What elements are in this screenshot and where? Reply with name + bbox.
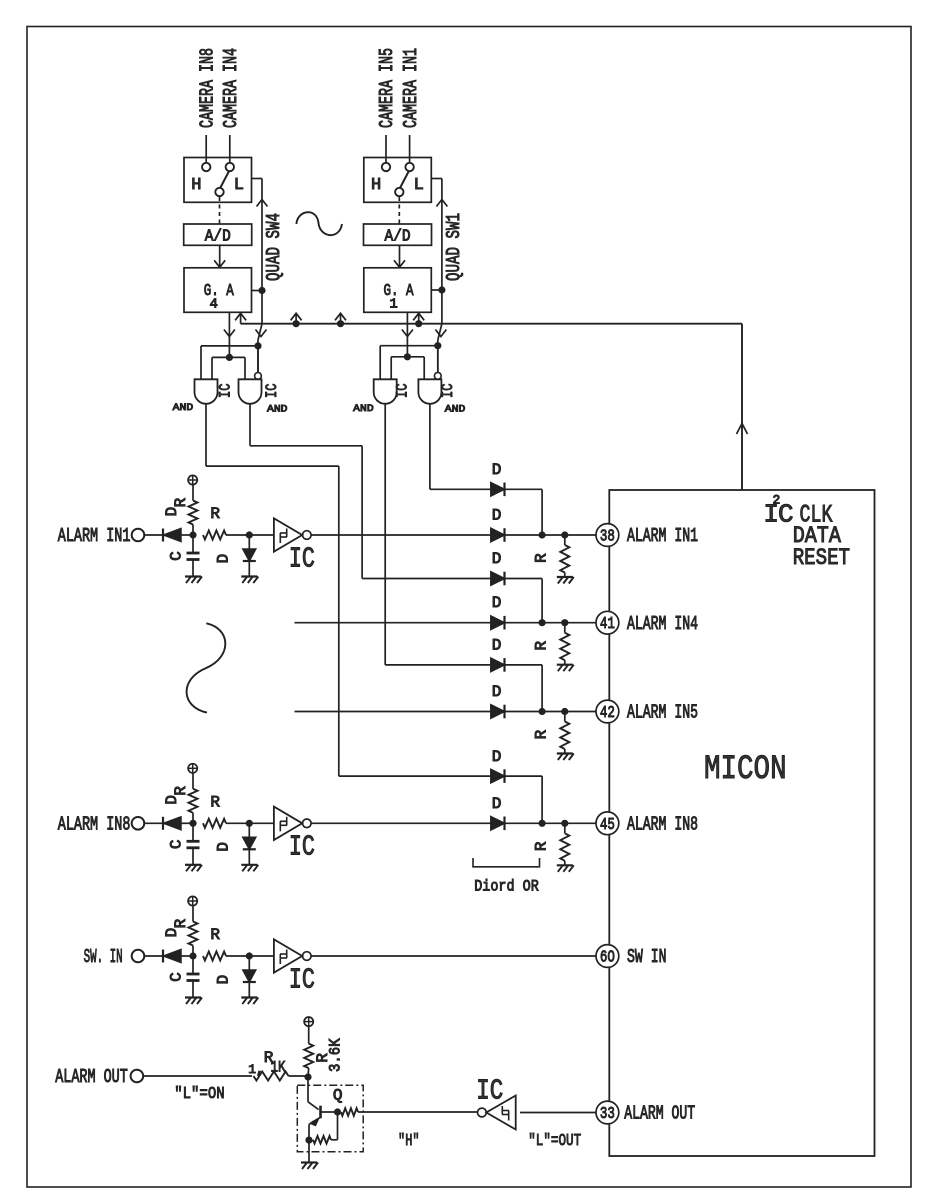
wire node to pulldown <box>564 712 566 722</box>
wire terminal to resistor <box>143 1075 252 1077</box>
wire diode to node <box>181 534 190 536</box>
svg-text:ALARM IN1: ALARM IN1 <box>627 525 698 547</box>
ground Q <box>301 1161 317 1163</box>
svg-text:CAMERA IN5: CAMERA IN5 <box>376 48 398 128</box>
wire node2 down <box>248 956 250 970</box>
node emitter <box>305 1137 312 1144</box>
svg-text:R: R <box>210 505 220 523</box>
svg-text:R: R <box>172 918 190 928</box>
diode D clamp SW. IN <box>243 970 256 982</box>
svg-text:IC: IC <box>289 831 315 864</box>
ground pulldown pin 42 <box>557 752 573 754</box>
svg-text:IC: IC <box>439 384 457 399</box>
wire node down to capacitor <box>192 535 194 552</box>
svg-text:MICON: MICON <box>704 751 787 789</box>
svg-text:D: D <box>215 554 233 564</box>
svg-text:"L"=OUT: "L"=OUT <box>528 1132 581 1151</box>
pin 38 circle <box>596 524 619 547</box>
diode D series ALARM IN8 <box>162 817 164 830</box>
svg-text:L: L <box>234 176 244 195</box>
wire U2c output to row42 diode <box>384 404 386 665</box>
diode D (row, pin 38) <box>491 528 505 542</box>
svg-text:"L"=ON: "L"=ON <box>174 1085 225 1104</box>
wire node to pulldown <box>564 535 566 545</box>
resistor R series ALARM IN1 <box>203 531 226 540</box>
svg-text:A/D: A/D <box>205 228 231 247</box>
wire node up <box>192 813 194 824</box>
svg-text:H: H <box>191 176 201 195</box>
wire top diode to row 41 <box>505 578 543 580</box>
svg-text:ALARM IN1: ALARM IN1 <box>58 525 131 547</box>
wire QUAD SW1 <box>431 178 442 180</box>
svg-text:A/D: A/D <box>385 228 411 247</box>
node row 41 a <box>539 619 546 626</box>
resistor R pulldown pin 42 <box>560 722 569 750</box>
svg-text:CAMERA IN4: CAMERA IN4 <box>220 48 242 128</box>
node QUAD SW1 junction <box>434 342 441 349</box>
power supply SW. IN <box>188 896 197 905</box>
wire row 41 to pin <box>505 622 597 624</box>
wire node2 down <box>248 535 250 549</box>
resistor R pulldown pin 45 <box>560 833 569 861</box>
svg-text:G. A: G. A <box>384 282 415 301</box>
svg-text:AND: AND <box>267 404 288 416</box>
wire U2a output to row45 diode <box>205 404 207 466</box>
wire terminal to diode <box>144 955 163 957</box>
node bus C <box>415 320 422 327</box>
wire row 38 to pin <box>505 534 597 536</box>
transistor Q base bar <box>319 1106 322 1119</box>
svg-text:D: D <box>492 594 502 612</box>
node row 45 b <box>561 820 568 827</box>
diode D (top, pin 38) <box>491 483 505 497</box>
svg-text:IC: IC <box>289 542 315 575</box>
wire node2 to inverter <box>249 822 274 824</box>
svg-text:ALARM IN8: ALARM IN8 <box>58 814 131 836</box>
wire emitter to ground <box>308 1140 310 1162</box>
wire top diode to row 42 <box>505 664 543 666</box>
arrow up on QUAD SW4 wire <box>257 200 268 207</box>
node bus A <box>293 320 300 327</box>
node row 38 b <box>561 531 568 538</box>
resistor R series ALARM IN8 <box>203 819 226 828</box>
wire terminal to diode <box>144 534 163 536</box>
wire dashed lever-A/D right <box>398 197 400 224</box>
wire pullup to node <box>307 1068 310 1077</box>
wire resistor to node2 <box>226 955 246 957</box>
svg-text:C: C <box>168 972 186 982</box>
wire top diode to row 38 <box>505 488 543 490</box>
svg-text:R: R <box>210 926 220 944</box>
svg-text:D: D <box>215 842 233 852</box>
svg-text:D: D <box>492 507 502 525</box>
switch SW4 lever <box>220 172 229 189</box>
resistor R 1K <box>254 1072 289 1081</box>
svg-text:R: R <box>533 641 551 651</box>
svg-text:D: D <box>492 748 502 766</box>
schmitt inverter IC ALARM IN1 <box>274 518 302 551</box>
inverted input bubble U2d <box>434 373 441 380</box>
AND gate U2a <box>195 379 218 404</box>
terminal ALARM IN8 <box>132 817 145 830</box>
ground pulldown pin 45 <box>557 864 573 866</box>
node 2 SW. IN <box>246 952 253 959</box>
svg-text:D: D <box>492 637 502 655</box>
wire camera IN4 lead <box>229 135 231 163</box>
switch SW4 contact H <box>202 163 210 171</box>
resistor R pull-up ALARM IN1 <box>189 501 198 525</box>
wire IC out ALARM IN8 to diode OR <box>311 822 491 824</box>
svg-text:QUAD SW1: QUAD SW1 <box>443 213 465 281</box>
switch SW4 contact L <box>226 163 234 171</box>
wire node down to capacitor <box>192 956 194 973</box>
node row 41 b <box>561 619 568 626</box>
svg-text:ALARM IN5: ALARM IN5 <box>627 702 698 724</box>
terminal SW. IN <box>132 950 145 963</box>
svg-text:IC: IC <box>263 384 281 399</box>
wire resistor to power <box>192 485 194 501</box>
svg-text:3.6K: 3.6K <box>327 1038 345 1072</box>
node QUAD SW4 junction <box>254 342 261 349</box>
wire camera IN8 lead <box>205 135 207 163</box>
svg-text:ALARM IN4: ALARM IN4 <box>627 613 698 635</box>
schmitt inverter IC SW. IN <box>274 939 302 972</box>
resistor R pull-up ALARM IN8 <box>189 789 198 813</box>
wire camera IN5 lead <box>385 135 387 163</box>
AND gate U2c <box>374 379 397 404</box>
svg-text:CAMERA IN8: CAMERA IN8 <box>196 48 218 128</box>
arrow up into G.A 4 <box>240 312 242 323</box>
A/D converter block 1 <box>364 224 432 245</box>
pin 33 circle <box>596 1101 619 1124</box>
arrow up on QUAD SW1 wire <box>436 200 447 207</box>
diode D (row, pin 45) <box>491 817 505 831</box>
svg-text:IC: IC <box>394 384 412 399</box>
wire top diode to row 45 <box>505 775 543 777</box>
diode D series ALARM IN1 <box>162 529 164 542</box>
ground capacitor ALARM IN1 <box>185 575 201 577</box>
svg-text:AND: AND <box>173 402 194 414</box>
wire row 42 to pin <box>505 711 597 713</box>
node input ALARM IN8 <box>189 820 196 827</box>
svg-text:R: R <box>210 793 220 811</box>
resistor R series SW. IN <box>203 952 226 961</box>
svg-text:AND: AND <box>353 403 374 415</box>
wire node down to capacitor <box>192 823 194 840</box>
ground pulldown pin 41 <box>557 664 573 666</box>
svg-text:6O: 6O <box>600 949 615 968</box>
wire node2 to inverter <box>249 955 274 957</box>
svg-text:SW IN: SW IN <box>627 946 667 968</box>
switch SW1 contact H <box>382 163 390 171</box>
wire bubble U2d <box>437 346 439 373</box>
svg-text:1,: 1, <box>248 1062 264 1077</box>
wire node2 down <box>248 823 250 837</box>
wire diode to node <box>181 822 190 824</box>
svg-text:D: D <box>163 928 181 938</box>
wire QUAD SW4 to U2a input <box>201 345 258 347</box>
power supply ALARM IN8 <box>188 764 197 773</box>
wire node to pulldown <box>564 823 566 833</box>
pin 42 circle <box>596 700 619 723</box>
diode D (top, pin 42) <box>491 658 505 672</box>
svg-text:R: R <box>172 786 190 796</box>
ground capacitor ALARM IN8 <box>185 864 201 866</box>
MICON block <box>609 490 874 1156</box>
diode D clamp ALARM IN1 <box>243 549 256 561</box>
wire U2d output to row38 diode <box>429 404 431 490</box>
wire resistor to power <box>192 773 194 789</box>
switch SW1 contact L <box>405 163 413 171</box>
wire main bus <box>241 323 742 325</box>
svg-text:IC: IC <box>217 384 235 399</box>
wire base resistor out <box>358 1111 478 1113</box>
node base <box>334 1108 341 1115</box>
wire bubble U2b <box>257 346 259 373</box>
wire capacitor to ground <box>192 560 194 577</box>
svg-text:D: D <box>215 975 233 985</box>
node row 38 a <box>539 531 546 538</box>
diode D clamp ALARM IN8 <box>243 837 256 849</box>
svg-text:CAMERA IN1: CAMERA IN1 <box>400 48 422 128</box>
amplifier G.A 1 block <box>364 268 432 313</box>
wire QUAD SW4 <box>252 178 263 180</box>
switch SW4 box <box>184 158 252 203</box>
capacitor C SW. IN <box>187 973 200 976</box>
resistor R base-emitter <box>313 1136 331 1144</box>
wire resistor to node <box>289 1075 309 1077</box>
wire G.A1 to U2c/U2d inputs <box>391 356 424 358</box>
svg-text:D: D <box>492 795 502 813</box>
power supply ALARM IN1 <box>188 475 197 484</box>
svg-text:"H": "H" <box>398 1132 420 1151</box>
wire G.A4 to U2a/U2b inputs <box>212 356 245 358</box>
svg-text:Q: Q <box>333 1086 343 1104</box>
resistor R base series <box>341 1108 358 1116</box>
svg-text:IC: IC <box>476 1074 503 1107</box>
svg-text:ALARM OUT: ALARM OUT <box>624 1103 695 1125</box>
wire IC out SW.IN to pin 60 <box>311 955 596 957</box>
power supply Q <box>304 1017 313 1026</box>
wire row 45 to pin <box>505 822 597 824</box>
node G.A 1 / QUAD SW1 <box>438 286 445 293</box>
wire diode to node <box>181 955 190 957</box>
svg-text:1: 1 <box>389 297 397 313</box>
svg-text:R: R <box>172 497 190 507</box>
svg-text:L: L <box>414 176 424 195</box>
node 2 ALARM IN1 <box>246 531 253 538</box>
svg-text:R: R <box>533 729 551 739</box>
svg-text:R: R <box>533 553 551 563</box>
wire node to pulldown <box>564 623 566 633</box>
break squiggle top <box>296 212 342 235</box>
break squiggle left <box>187 623 226 712</box>
terminal ALARM OUT <box>131 1070 144 1083</box>
schmitt inverter IC (ALARM OUT) <box>486 1096 515 1130</box>
svg-text:G. A: G. A <box>204 282 235 301</box>
wire pulldown to ground <box>564 861 566 866</box>
svg-text:4: 4 <box>210 297 218 313</box>
svg-text:D: D <box>492 461 502 479</box>
diode D (row, pin 41) <box>491 616 505 630</box>
arrow down from G.A 4 <box>228 312 230 357</box>
wire inverter to pin 33 <box>520 1112 596 1114</box>
node input ALARM IN1 <box>189 531 196 538</box>
ground pulldown pin 38 <box>557 576 573 578</box>
svg-text:41: 41 <box>600 615 615 634</box>
svg-text:33: 33 <box>600 1105 615 1124</box>
AND gate U2d <box>418 379 441 404</box>
svg-text:H: H <box>371 176 381 195</box>
svg-text:42: 42 <box>600 704 615 723</box>
capacitor C ALARM IN8 <box>187 840 200 843</box>
svg-text:Diord OR: Diord OR <box>474 878 539 896</box>
wire dashed lever-A/D left <box>219 197 221 224</box>
svg-text:ALARM IN8: ALARM IN8 <box>627 814 698 836</box>
svg-text:RESET: RESET <box>793 545 850 571</box>
ground clamp ALARM IN8 <box>241 864 257 866</box>
node bus B <box>337 320 344 327</box>
wire pulldown to ground <box>564 660 566 665</box>
node row 42 a <box>539 708 546 715</box>
wire A/D to G.A arrow <box>399 245 401 267</box>
AND gate U2b <box>239 379 262 404</box>
diode D (top, pin 45) <box>491 769 505 783</box>
switch SW4 pole <box>215 188 223 196</box>
svg-text:ALARM OUT: ALARM OUT <box>55 1066 128 1088</box>
node 2 ALARM IN8 <box>246 820 253 827</box>
resistor R 3.6K pull-up <box>304 1044 313 1069</box>
wire resistor to node2 <box>226 822 246 824</box>
node row 45 a <box>539 820 546 827</box>
resistor R pulldown pin 41 <box>560 633 569 661</box>
wire base <box>321 1111 338 1113</box>
svg-text:D: D <box>492 683 502 701</box>
svg-text:1K: 1K <box>271 1059 286 1077</box>
node row 42 b <box>561 708 568 715</box>
node G.A 4 / QUAD SW4 <box>258 287 265 294</box>
svg-text:SW. IN: SW. IN <box>84 946 123 968</box>
wire collector <box>307 1077 309 1102</box>
wire QUAD SW1 to U2c input <box>380 345 438 347</box>
svg-text:C: C <box>168 551 186 561</box>
svg-text:QUAD SW4: QUAD SW4 <box>263 213 285 281</box>
svg-text:C: C <box>778 500 794 530</box>
wire capacitor to ground <box>192 981 194 998</box>
wire row ALARM IN4 stub <box>295 622 491 624</box>
wire node2 to inverter <box>249 534 274 536</box>
wire A/D to G.A arrow <box>219 245 221 267</box>
svg-text:C: C <box>168 839 186 849</box>
capacitor C ALARM IN1 <box>187 552 200 555</box>
diode D (row, pin 42) <box>491 705 505 719</box>
svg-text:38: 38 <box>600 528 615 547</box>
pin 45 circle <box>596 812 619 835</box>
wire U2b output to row41 diode <box>249 404 251 446</box>
resistor R pulldown pin 38 <box>560 545 569 573</box>
wire BE resistor to base node <box>331 1139 338 1141</box>
svg-text:D: D <box>492 550 502 568</box>
node G.A1 out junction <box>404 353 411 360</box>
amplifier G.A 4 block <box>184 268 252 313</box>
transistor Q emitter <box>312 1117 321 1122</box>
node input SW. IN <box>189 952 196 959</box>
wire G.A 1 to QUAD SW1 <box>431 289 442 291</box>
arrow down on QUAD SW1 wire <box>435 330 446 337</box>
schmitt inverter IC ALARM IN8 <box>274 807 302 840</box>
wire resistor to power <box>192 906 194 922</box>
diode D series SW. IN <box>162 950 164 963</box>
ground clamp SW. IN <box>241 996 257 998</box>
wire node up <box>192 525 194 536</box>
wire camera IN1 lead <box>409 135 411 163</box>
svg-text:D: D <box>163 795 181 805</box>
pin 60 circle <box>596 945 619 968</box>
terminal ALARM IN1 <box>132 529 145 542</box>
arrow up to bus from MICON <box>737 424 748 435</box>
wire IC out ALARM IN1 to diode OR <box>311 534 491 536</box>
resistor R pull-up SW. IN <box>189 922 198 946</box>
wire clamp diode to ground <box>248 982 250 998</box>
inverted input bubble U2b <box>255 373 262 380</box>
svg-text:R: R <box>533 841 551 851</box>
wire terminal to diode <box>144 822 163 824</box>
switch SW1 pole <box>395 188 403 196</box>
svg-text:IC: IC <box>289 963 315 996</box>
pin 41 circle <box>596 611 619 634</box>
switch SW1 lever <box>400 172 409 189</box>
wire capacitor to ground <box>192 848 194 865</box>
arrow up into G.A 1 <box>418 312 420 324</box>
wire row ALARM IN5 stub <box>295 711 491 713</box>
wire node up <box>192 946 194 957</box>
A/D converter block 4 <box>184 224 252 245</box>
arrow down on QUAD SW4 wire <box>256 330 267 337</box>
wire G.A 4 to QUAD SW4 <box>252 290 263 292</box>
bracket Diord OR <box>473 858 540 867</box>
wire clamp diode to ground <box>248 849 250 865</box>
switch SW1 box <box>364 158 432 203</box>
diode D (top, pin 41) <box>491 572 505 586</box>
svg-text:AND: AND <box>445 404 466 416</box>
wire clamp diode to ground <box>248 561 250 577</box>
node G.A4 out junction <box>226 354 233 361</box>
ground clamp ALARM IN1 <box>241 575 257 577</box>
node collector <box>304 1073 311 1080</box>
wire pulldown to ground <box>564 573 566 578</box>
svg-text:D: D <box>163 507 181 517</box>
wire resistor to node2 <box>226 534 246 536</box>
svg-text:45: 45 <box>600 816 615 835</box>
arrow down from G.A 1 <box>406 312 408 357</box>
ground capacitor SW. IN <box>185 996 201 998</box>
transistor Q package box <box>297 1085 363 1151</box>
wire power to pullup <box>308 1026 310 1043</box>
wire pulldown to ground <box>564 749 566 754</box>
